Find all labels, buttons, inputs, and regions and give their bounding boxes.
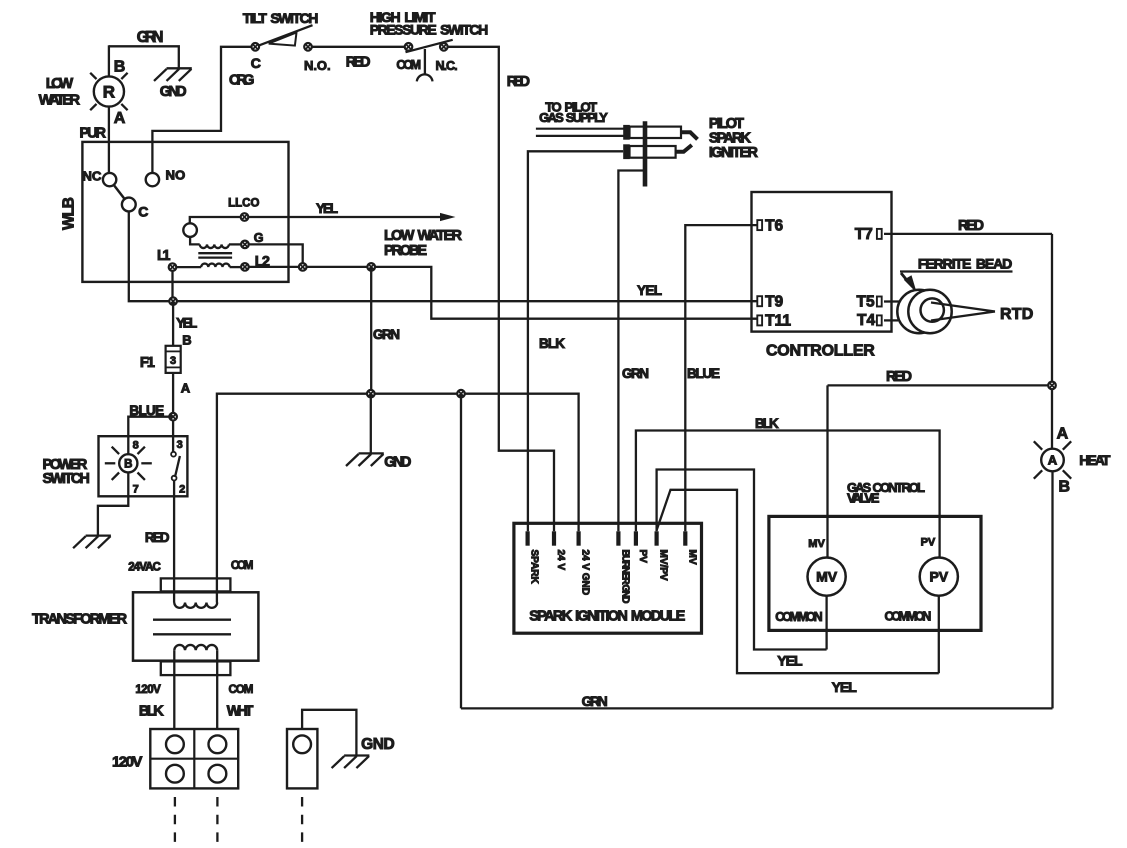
svg-text:B: B: [124, 458, 132, 470]
svg-text:MV/PV: MV/PV: [658, 550, 669, 581]
svg-text:TILT SWITCH: TILT SWITCH: [243, 10, 319, 26]
svg-text:B: B: [182, 332, 191, 347]
svg-text:RED: RED: [886, 369, 912, 385]
svg-text:SPARK: SPARK: [529, 550, 540, 585]
svg-text:120V: 120V: [112, 754, 142, 771]
svg-text:SPARK: SPARK: [709, 131, 752, 147]
svg-text:RTD: RTD: [1000, 306, 1033, 323]
svg-text:24 V: 24 V: [555, 550, 566, 571]
svg-text:NO: NO: [166, 168, 186, 183]
svg-text:BLK: BLK: [539, 336, 565, 351]
svg-text:SPARK IGNITION MODULE: SPARK IGNITION MODULE: [529, 609, 685, 625]
svg-text:GRN: GRN: [373, 327, 400, 342]
svg-text:BURNER GND: BURNER GND: [620, 550, 631, 604]
svg-text:A: A: [1048, 453, 1058, 468]
svg-text:LOW: LOW: [46, 75, 74, 92]
svg-text:GRN: GRN: [582, 693, 608, 709]
svg-text:MV: MV: [686, 550, 697, 565]
svg-text:HEAT: HEAT: [1079, 452, 1111, 468]
svg-text:GND: GND: [160, 84, 187, 100]
svg-text:R: R: [103, 83, 115, 102]
svg-text:BLK: BLK: [139, 704, 164, 720]
svg-text:CONTROLLER: CONTROLLER: [766, 342, 875, 359]
svg-text:7: 7: [133, 484, 139, 496]
svg-text:B: B: [1059, 479, 1071, 496]
svg-text:LOW WATER: LOW WATER: [384, 228, 463, 244]
svg-text:A: A: [114, 110, 126, 127]
svg-text:A: A: [181, 381, 191, 396]
svg-text:COM: COM: [396, 58, 421, 72]
svg-text:FERRITE BEAD: FERRITE BEAD: [918, 256, 1012, 272]
svg-text:BLUE: BLUE: [687, 366, 720, 381]
svg-text:COM: COM: [231, 560, 253, 572]
svg-text:YEL: YEL: [637, 283, 662, 298]
svg-text:SWITCH: SWITCH: [43, 471, 90, 487]
svg-text:MV: MV: [808, 538, 825, 550]
svg-text:NC: NC: [82, 168, 102, 183]
svg-text:T9: T9: [765, 294, 783, 311]
svg-text:PRESSURE SWITCH: PRESSURE SWITCH: [370, 22, 489, 38]
svg-text:COM: COM: [229, 684, 254, 696]
svg-text:PV: PV: [921, 537, 936, 549]
svg-text:COMMON: COMMON: [775, 610, 822, 624]
svg-text:YEL: YEL: [176, 316, 197, 331]
svg-text:MV: MV: [816, 569, 838, 585]
svg-text:BLK: BLK: [755, 416, 779, 431]
svg-text:GAS SUPPLY: GAS SUPPLY: [539, 110, 608, 125]
svg-text:PV: PV: [930, 569, 949, 585]
svg-text:24 V GND: 24 V GND: [580, 550, 591, 596]
svg-text:T6: T6: [765, 217, 783, 234]
svg-text:T5: T5: [857, 294, 875, 311]
svg-text:WLB: WLB: [61, 197, 78, 230]
svg-text:B: B: [114, 58, 126, 75]
svg-text:WHT: WHT: [227, 704, 254, 720]
svg-text:RED: RED: [145, 530, 170, 545]
svg-text:PROBE: PROBE: [384, 243, 427, 259]
svg-text:N.O.: N.O.: [304, 58, 331, 73]
svg-text:LLCO: LLCO: [228, 197, 259, 209]
svg-text:COMMON: COMMON: [885, 609, 932, 623]
svg-text:RED: RED: [346, 54, 371, 70]
svg-text:GND: GND: [384, 455, 411, 471]
svg-text:T7: T7: [855, 226, 873, 243]
svg-text:120V: 120V: [135, 684, 161, 696]
svg-text:GRN: GRN: [622, 366, 649, 381]
svg-text:A: A: [1057, 426, 1069, 443]
svg-text:N.C.: N.C.: [436, 59, 458, 73]
svg-text:3: 3: [177, 439, 183, 451]
svg-text:PILOT: PILOT: [709, 116, 744, 132]
svg-text:G: G: [254, 231, 264, 245]
svg-text:RED: RED: [507, 74, 530, 90]
svg-text:PV: PV: [637, 550, 648, 564]
svg-text:PUR: PUR: [80, 125, 107, 141]
svg-text:F1: F1: [140, 355, 155, 371]
svg-text:VALVE: VALVE: [847, 491, 880, 506]
svg-text:GND: GND: [361, 736, 395, 753]
svg-text:YEL: YEL: [316, 201, 338, 216]
svg-text:24VAC: 24VAC: [128, 562, 161, 574]
svg-text:2: 2: [179, 484, 185, 496]
svg-text:T11: T11: [765, 313, 791, 330]
svg-text:T4: T4: [857, 312, 875, 329]
svg-text:C: C: [251, 55, 261, 71]
svg-text:L1: L1: [157, 248, 171, 264]
svg-text:ORG: ORG: [229, 73, 254, 89]
svg-text:TRANSFORMER: TRANSFORMER: [32, 612, 128, 628]
svg-text:GRN: GRN: [137, 29, 164, 46]
svg-text:8: 8: [133, 439, 139, 451]
svg-text:IGNITER: IGNITER: [709, 145, 759, 161]
svg-text:WATER: WATER: [39, 91, 81, 108]
svg-text:3: 3: [170, 355, 176, 367]
svg-text:YEL: YEL: [777, 653, 803, 669]
svg-text:YEL: YEL: [832, 679, 858, 695]
svg-text:C: C: [138, 204, 148, 220]
svg-text:RED: RED: [958, 218, 984, 234]
